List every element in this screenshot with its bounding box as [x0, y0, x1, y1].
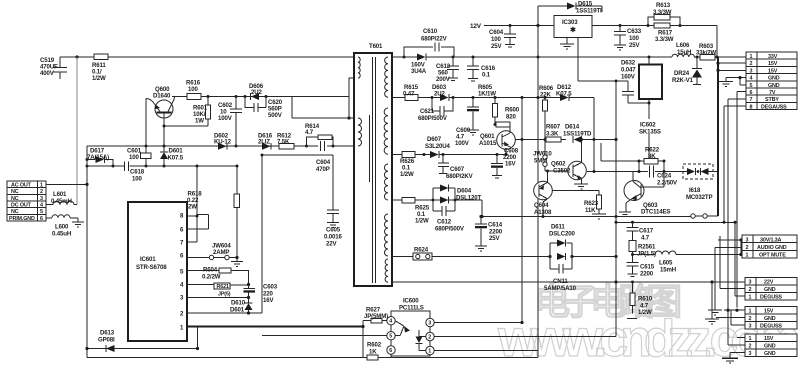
wire snubber to transformer: [292, 97, 354, 119]
diode D603: [432, 84, 449, 101]
svg-text:C610: C610: [423, 28, 438, 35]
resistor R627: [363, 307, 388, 324]
svg-text:C621: C621: [420, 108, 435, 115]
svg-text:S3L20U4: S3L20U4: [425, 143, 450, 150]
svg-text:DEGUSS: DEGUSS: [760, 323, 782, 329]
diode D604: [433, 185, 481, 212]
connector CN1 8pin: [746, 52, 797, 110]
wire IC601 pin2: [187, 312, 262, 314]
svg-text:1/2W: 1/2W: [415, 218, 429, 225]
svg-text:5: 5: [40, 209, 43, 215]
transistor Q601: [479, 127, 616, 155]
transistor Q603: [619, 172, 670, 216]
capacitor C620: [245, 97, 283, 120]
wire 15Vb pins: [737, 337, 745, 339]
svg-text:400V: 400V: [40, 70, 55, 77]
svg-text:IC601: IC601: [140, 256, 156, 263]
svg-text:1K: 1K: [369, 349, 377, 356]
svg-text:15uH: 15uH: [677, 49, 691, 56]
svg-text:22K: 22K: [540, 92, 551, 99]
svg-text:STBY: STBY: [765, 97, 779, 103]
resistor R617: [654, 23, 674, 43]
svg-text:2: 2: [749, 287, 752, 293]
ground IC601 pin6: [231, 256, 243, 267]
svg-text:25V: 25V: [489, 235, 500, 242]
svg-text:2W: 2W: [188, 204, 197, 211]
svg-text:2: 2: [750, 61, 753, 67]
svg-text:5: 5: [750, 83, 753, 89]
wire y166: [87, 165, 237, 167]
svg-text:6: 6: [389, 348, 392, 354]
svg-text:GP08I: GP08I: [98, 337, 115, 344]
svg-text:JP(5MM): JP(5MM): [364, 313, 388, 320]
svg-text:3.3/3W: 3.3/3W: [653, 9, 672, 16]
svg-text:R2K-V1: R2K-V1: [672, 77, 694, 84]
diode D617: [87, 148, 113, 167]
resistor R603: [696, 43, 716, 60]
svg-text:7: 7: [750, 97, 753, 103]
svg-text:AC OUT: AC OUT: [11, 183, 32, 189]
svg-text:C3502: C3502: [553, 168, 571, 175]
svg-text:4.7: 4.7: [305, 129, 314, 136]
capacitor C602: [218, 97, 242, 147]
resistor R614: [305, 123, 333, 146]
svg-text:5: 5: [389, 334, 392, 340]
svg-text:2: 2: [746, 245, 749, 251]
wire x522 vertical: [521, 98, 523, 323]
svg-text:1: 1: [428, 349, 431, 355]
wire transformer tap hook: [349, 78, 354, 118]
svg-text:6: 6: [750, 90, 753, 96]
resistor R605: [478, 84, 498, 125]
svg-text:680P/500V: 680P/500V: [418, 115, 448, 122]
svg-text:C604: C604: [316, 159, 331, 166]
wire to 30V pin: [718, 239, 742, 241]
svg-text:3: 3: [749, 323, 752, 329]
svg-text:R2561: R2561: [638, 244, 656, 251]
svg-text:1/2W: 1/2W: [638, 309, 652, 316]
resistor R604: [187, 267, 249, 285]
diode D602: [214, 133, 232, 150]
resistor R607: [546, 124, 561, 143]
svg-text:4: 4: [40, 202, 43, 208]
capacitor C614: [475, 215, 503, 251]
svg-text:R602: R602: [367, 342, 382, 349]
svg-text:C605: C605: [326, 227, 341, 234]
svg-text:33k/2W: 33k/2W: [696, 50, 716, 57]
diode D614: [563, 124, 592, 144]
svg-text:IC600: IC600: [403, 298, 419, 305]
svg-text:2.2/50V: 2.2/50V: [657, 180, 678, 187]
capacitor C633: [614, 26, 642, 51]
svg-text:I618: I618: [689, 187, 701, 194]
diode D613: [87, 330, 198, 353]
diode D615: [538, 1, 602, 15]
diode D616: [258, 133, 273, 150]
capacitor C612: [433, 206, 465, 233]
svg-text:STR-S6708: STR-S6708: [136, 264, 167, 271]
svg-text:3: 3: [428, 321, 431, 327]
wire x616 vertical: [615, 81, 617, 337]
wire secondary ground rail y282: [392, 281, 745, 283]
svg-text:25V: 25V: [629, 42, 640, 49]
resistor R600: [494, 107, 520, 128]
diode D608 rectifier: [411, 54, 427, 76]
jumper JW604: [187, 243, 237, 260]
svg-text:1SS119TD: 1SS119TD: [563, 131, 592, 138]
capacitor C616: [467, 57, 496, 81]
svg-text:NC: NC: [11, 209, 19, 215]
svg-text:DSL120T: DSL120T: [456, 195, 481, 202]
svg-text:D613: D613: [100, 330, 115, 337]
svg-text:D1640: D1640: [153, 93, 171, 100]
svg-text:A1308: A1308: [534, 209, 552, 216]
svg-text:GND: GND: [768, 76, 780, 82]
svg-text:15V: 15V: [764, 309, 774, 315]
node Q600 base junction: [163, 125, 166, 128]
svg-text:1: 1: [750, 54, 753, 60]
svg-text:L600: L600: [55, 224, 69, 231]
svg-text:Q601: Q601: [480, 133, 495, 140]
svg-text:GND: GND: [764, 351, 776, 357]
svg-text:IC602: IC602: [640, 122, 656, 129]
diode D607: [425, 136, 450, 158]
op-amp U1 IC601 STR-S6708: [128, 202, 187, 341]
jumper JW610: [533, 140, 568, 172]
connector CN 15V a: [745, 307, 797, 330]
svg-text:4: 4: [389, 319, 392, 325]
svg-text:100: 100: [129, 154, 139, 161]
wire 12V rail: [484, 25, 554, 27]
svg-text:1: 1: [749, 294, 752, 300]
wire CN1 pin2 pin3: [718, 63, 746, 70]
svg-text:100: 100: [132, 176, 142, 183]
wire rail y216.5: [482, 216, 691, 218]
svg-text:1: 1: [749, 336, 752, 342]
svg-text:JW610: JW610: [533, 151, 552, 158]
resistor R622: [601, 143, 666, 164]
svg-text:1: 1: [746, 253, 749, 259]
wire x594 vertical: [593, 98, 595, 172]
svg-text:R600: R600: [505, 107, 520, 114]
wire 15Va pins: [724, 309, 745, 311]
svg-text:D614: D614: [565, 124, 580, 131]
svg-text:3.3K: 3.3K: [546, 131, 559, 138]
svg-text:IC303: IC303: [562, 19, 578, 26]
svg-text:D601: D601: [169, 148, 184, 155]
svg-text:D610: D610: [231, 300, 246, 307]
svg-text:5AMP/5A10: 5AMP/5A10: [544, 285, 577, 292]
svg-text:2200: 2200: [640, 271, 654, 278]
svg-text:D607: D607: [427, 136, 442, 143]
svg-text:C604: C604: [489, 29, 504, 36]
svg-text:2AMP: 2AMP: [213, 249, 229, 256]
IC602 SK135S: [639, 57, 662, 159]
capacitor C617: [627, 222, 654, 241]
wire opto pin6 to R602: [390, 354, 392, 357]
node junction x77 top rail: [75, 55, 78, 58]
svg-text:MC032TP: MC032TP: [686, 194, 712, 201]
svg-text:DEGAUSS: DEGAUSS: [761, 104, 787, 110]
capacitor C613: [436, 57, 459, 83]
svg-text:15mH: 15mH: [660, 267, 676, 274]
capacitor C603: [244, 283, 278, 304]
svg-text:Q602: Q602: [551, 161, 566, 168]
svg-text:K07.5: K07.5: [556, 91, 572, 98]
zener D610: [230, 298, 253, 314]
svg-text:OPT MUTE: OPT MUTE: [759, 253, 786, 259]
svg-text:DTC114ES: DTC114ES: [641, 209, 670, 216]
svg-text:2: 2: [428, 335, 431, 341]
svg-text:3U4A: 3U4A: [411, 68, 427, 75]
wire rail2 y222.3: [616, 221, 735, 223]
svg-text:R623: R623: [584, 200, 599, 207]
jumper R624: [413, 247, 432, 261]
svg-text:JP(5): JP(5): [218, 292, 231, 298]
svg-text:R610: R610: [638, 296, 653, 303]
capacitor C621: [418, 98, 453, 123]
wire secondary y154.5: [392, 154, 506, 156]
capacitor C615: [627, 253, 655, 278]
resistor R621 jumper: [187, 283, 249, 298]
zener D601: [160, 146, 184, 166]
svg-text:100V: 100V: [218, 115, 233, 122]
capacitor C605: [324, 155, 342, 248]
svg-text:0.1: 0.1: [482, 72, 491, 79]
capacitor C624: [587, 161, 687, 187]
wire CN1 pin7 STBY: [728, 99, 746, 345]
svg-text:C614: C614: [488, 222, 503, 229]
svg-text:R621: R621: [217, 284, 229, 290]
svg-text:3: 3: [749, 351, 752, 357]
resistor R602: [367, 342, 382, 361]
svg-text:16V: 16V: [505, 161, 516, 168]
svg-text:33V: 33V: [768, 54, 778, 60]
svg-text:D611: D611: [551, 224, 565, 231]
transistor Q604: [534, 170, 553, 217]
svg-text:0.0016: 0.0016: [324, 234, 342, 241]
svg-text:470P: 470P: [316, 166, 330, 173]
svg-text:SK135S: SK135S: [639, 129, 661, 136]
svg-text:0.2/2W: 0.2/2W: [202, 274, 221, 281]
svg-text:680P/22V: 680P/22V: [421, 36, 448, 43]
svg-text:PC111LS: PC111LS: [399, 305, 424, 312]
wire y81 from IC303: [578, 80, 628, 82]
wire vertical x77: [76, 57, 78, 205]
node R601 top: [207, 95, 210, 98]
svg-text:R624: R624: [414, 247, 429, 254]
inductor L606: [672, 42, 694, 57]
svg-text:3: 3: [750, 68, 753, 74]
svg-text:2: 2: [40, 189, 43, 195]
wire primary feedback y146: [87, 145, 354, 147]
svg-text:C612: C612: [437, 219, 452, 226]
svg-text:C607: C607: [450, 166, 465, 173]
capacitor C609: [455, 98, 479, 148]
svg-text:2U2: 2U2: [434, 91, 445, 98]
wire bottom rail: [87, 357, 538, 359]
wire secondary 12V rail y97.5: [392, 97, 594, 99]
svg-text:3: 3: [746, 237, 749, 243]
wire y155: [262, 154, 333, 156]
svg-text:3: 3: [40, 196, 43, 202]
wire AUDIO GND: [708, 248, 742, 316]
svg-text:3: 3: [749, 280, 752, 286]
wire CN1 pin6 7V: [737, 92, 746, 308]
capacitor C608: [491, 148, 519, 179]
svg-text:2LIZ: 2LIZ: [258, 139, 270, 146]
svg-text:6: 6: [40, 216, 43, 222]
svg-text:4: 4: [750, 76, 753, 82]
resistor R626: [400, 152, 415, 178]
wire secondary y200: [392, 199, 482, 201]
svg-text:C615: C615: [640, 264, 655, 271]
posistor DR24: [672, 57, 702, 85]
svg-text:12V: 12V: [470, 23, 482, 30]
resistor R606: [539, 85, 554, 140]
wire CN1 pin8 DEGAUSS: [724, 106, 746, 222]
svg-text:C617: C617: [639, 228, 654, 235]
capacitor C601: [127, 146, 151, 166]
svg-text:7.5K: 7.5K: [277, 139, 290, 146]
svg-text:GND: GND: [768, 83, 780, 89]
svg-text:22V: 22V: [764, 280, 774, 286]
svg-text:100: 100: [188, 86, 198, 93]
svg-text:3.3/3W: 3.3/3W: [655, 36, 674, 43]
wire secondary y256.5: [392, 256, 616, 258]
diode D606: [244, 83, 268, 100]
svg-text:1/2W: 1/2W: [400, 171, 414, 178]
node junctions on y146: [145, 145, 148, 148]
svg-text:30V/1.3A: 30V/1.3A: [760, 237, 782, 243]
svg-text:0.45mH: 0.45mH: [51, 198, 72, 205]
opto-coupler IC600 PC111LS: [387, 298, 434, 357]
svg-text:KU-12: KU-12: [214, 139, 232, 146]
wire x363 vertical: [362, 321, 364, 358]
inductor L605: [633, 251, 743, 274]
svg-text:D632: D632: [621, 60, 636, 67]
capacitor C604: [489, 26, 516, 51]
wire opto pin5 line: [262, 335, 387, 337]
resistor R610: [627, 282, 653, 319]
svg-text:4.7: 4.7: [641, 235, 650, 242]
svg-text:1: 1: [40, 183, 43, 189]
svg-text:GND: GND: [764, 344, 776, 350]
svg-text:2: 2: [749, 344, 752, 350]
wire top rail primary: [60, 56, 354, 58]
svg-text:680P/2KV: 680P/2KV: [446, 173, 474, 180]
optocoupler I618 dashed: [683, 164, 718, 201]
svg-text:8: 8: [750, 104, 753, 110]
resistor R611: [92, 54, 108, 82]
transistor Q602: [551, 138, 588, 189]
svg-text:✱: ✱: [570, 26, 576, 34]
wire opto pin1: [434, 351, 538, 358]
resistor R612: [277, 133, 294, 149]
svg-text:DSLC200: DSLC200: [549, 231, 575, 238]
capacitor C607: [438, 155, 474, 181]
svg-text:7V: 7V: [769, 90, 776, 96]
wire y200 to rail y216.5: [481, 200, 483, 217]
jumper R2561: [629, 241, 656, 258]
wire x197.5 drop from pin1 line: [197, 327, 199, 349]
svg-text:100V: 100V: [455, 140, 470, 147]
svg-text:15V: 15V: [768, 68, 778, 74]
wire AC OUT pin1: [46, 183, 87, 185]
svg-text:500V: 500V: [268, 112, 283, 119]
capacitor C610: [404, 28, 454, 57]
resistor R625: [402, 197, 430, 224]
svg-text:160V: 160V: [621, 74, 636, 81]
svg-text:C633: C633: [627, 28, 642, 35]
svg-text:680P/500V: 680P/500V: [435, 226, 465, 233]
wire 22V GND: [720, 236, 745, 289]
svg-text:T601: T601: [369, 43, 383, 50]
wire IC303 output: [592, 26, 717, 58]
resistor R615: [403, 84, 419, 100]
svg-text:1SS119TI: 1SS119TI: [576, 8, 602, 15]
svg-text:820: 820: [506, 114, 516, 121]
svg-text:2U2: 2U2: [251, 89, 262, 96]
svg-text:1: 1: [749, 309, 752, 315]
svg-text:NC: NC: [11, 196, 19, 202]
svg-text:GND: GND: [764, 316, 776, 322]
connector AC OUT: [7, 181, 46, 222]
svg-text:7A(15A): 7A(15A): [87, 154, 109, 161]
capacitor C519: [40, 57, 67, 79]
wire IC601 pin1: [188, 326, 363, 328]
ground CN1 pin4 pin5: [719, 76, 746, 87]
connector CN 15V b: [745, 334, 797, 357]
svg-text:PRIM.GND: PRIM.GND: [9, 216, 35, 222]
svg-text:R604: R604: [203, 267, 218, 274]
node C602 top: [235, 95, 238, 98]
svg-text:AUDIO GND: AUDIO GND: [757, 245, 787, 251]
jumper on rail y216: [691, 214, 718, 218]
diode D612: [556, 84, 572, 101]
svg-text:D601: D601: [230, 307, 245, 314]
svg-text:0.45uH: 0.45uH: [52, 231, 71, 238]
connector CN 22V: [745, 278, 797, 301]
transformer T601: [354, 43, 392, 286]
svg-text:15V: 15V: [768, 61, 778, 67]
resistor R618: [187, 165, 240, 258]
svg-text:0.047: 0.047: [621, 67, 636, 74]
resistor R616: [172, 80, 349, 100]
svg-text:15V: 15V: [764, 336, 774, 342]
transistor Q600: [146, 86, 208, 146]
inductor L601: [46, 191, 77, 205]
svg-text:GND: GND: [764, 287, 776, 293]
wire opto pin3: [434, 322, 522, 324]
resistor R601: [193, 97, 211, 125]
wire x538 long vertical: [537, 6, 539, 351]
wire opto pin2: [434, 336, 616, 338]
resistor R613: [648, 2, 680, 26]
svg-text:A1015: A1015: [479, 140, 497, 147]
resistor R623: [552, 191, 606, 220]
svg-text:L605: L605: [659, 260, 673, 267]
svg-text:D604: D604: [457, 188, 472, 195]
capacitor C604 primary: [316, 141, 331, 173]
svg-text:8K: 8K: [648, 153, 656, 160]
inductor L600: [46, 215, 84, 238]
wire 22V DEGUSS: [735, 222, 745, 296]
svg-text:DEGUSS: DEGUSS: [760, 294, 782, 300]
svg-text:1K/1W: 1K/1W: [478, 91, 496, 98]
ground rail y282 drop: [705, 282, 719, 324]
wire x197 drop to IC601 pin8: [187, 166, 209, 242]
